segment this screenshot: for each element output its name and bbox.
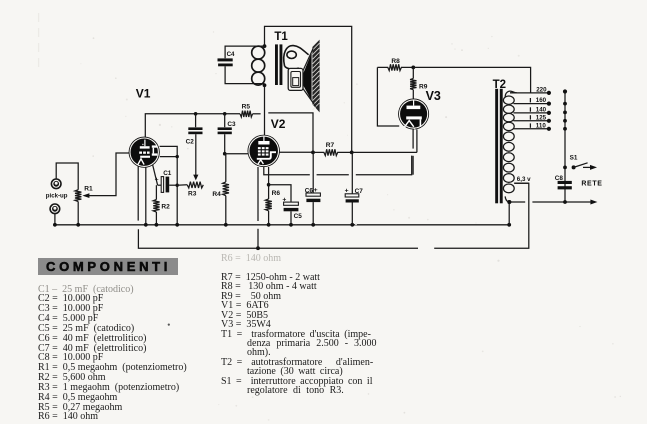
node raw B+ [350, 151, 354, 155]
wire V3 pins to B+ node and heater link [413, 129, 417, 174]
node bus diode line [175, 223, 179, 227]
node bus C5 [289, 223, 293, 227]
pick-up jack top [51, 179, 61, 189]
transformer T1 secondary winding [284, 46, 309, 70]
node R6 top [267, 183, 271, 187]
wire pick-up bottom to ground bus [54, 213, 56, 224]
capacitor C6 electrolytic [306, 152, 320, 224]
wire raw B+ to V3 cathode [352, 151, 417, 153]
resistor R3 potentiometer [177, 182, 203, 188]
svg-text:R6: R6 [272, 190, 281, 197]
svg-text:C6: C6 [305, 188, 314, 195]
wire V1 heater pin to filament bus [138, 166, 529, 248]
node bus right end [507, 223, 511, 227]
svg-text:V2: V2 [271, 117, 286, 131]
resistor R4 [223, 154, 229, 225]
node diode line junctions [176, 155, 179, 158]
capacitor C2 [188, 114, 202, 181]
ink dot artifact [168, 324, 170, 326]
node C3 top [223, 112, 227, 116]
wire mains selector column [564, 92, 566, 202]
node bus pick-up [53, 223, 57, 227]
node T2 tap terminals [547, 91, 551, 131]
components list right column [221, 254, 421, 396]
svg-text:R5: R5 [242, 104, 251, 111]
capacitor C1 [158, 177, 178, 193]
capacitor C5 electrolytic [269, 185, 299, 225]
svg-text:R1: R1 [84, 186, 93, 193]
speaker [288, 40, 319, 113]
svg-text:R8: R8 [391, 58, 400, 65]
wire V1 pin to ground bus [145, 167, 147, 225]
svg-text:C4: C4 [227, 51, 235, 58]
wire V1 diode plates to ground line [160, 146, 178, 224]
resistor R1 potentiometer [75, 190, 81, 225]
wire V2 screen to filtered B+ node [280, 151, 313, 153]
svg-text:R9: R9 [419, 84, 428, 91]
T2 6.3V tap wire [514, 182, 529, 184]
node bus R1 [76, 223, 80, 227]
node R8/R9 junction [411, 66, 415, 70]
wire T2 voltage taps [510, 93, 549, 129]
svg-text:C2: C2 [186, 138, 195, 145]
wire C3 to V2 grid [225, 153, 248, 155]
svg-text:140: 140 [536, 107, 547, 114]
transformer T1 primary coil [252, 46, 265, 85]
node T1 primary top [263, 44, 267, 48]
wire V2 heater link to V3 [264, 156, 412, 175]
svg-text:110: 110 [536, 123, 547, 130]
node bus R2 [155, 223, 159, 227]
wire rectifier junction to T2 tap 220 [413, 67, 530, 93]
node bus C7 [350, 223, 354, 227]
capacitor C3 [218, 114, 232, 154]
node V2 grid / R4 top [223, 152, 227, 156]
node T2 bottom [507, 200, 511, 204]
svg-text:V1: V1 [136, 87, 151, 101]
svg-text:R3: R3 [188, 191, 197, 198]
node bus V1 pin [144, 223, 148, 227]
resistor R6 [265, 199, 271, 225]
wire mains bottom lead with arrow [507, 200, 597, 225]
resistor R8 [377, 64, 413, 70]
components list left column [38, 285, 223, 423]
svg-text:RETE: RETE [581, 180, 602, 187]
svg-text:+: + [345, 187, 349, 194]
wire pick-up to R1 top [56, 163, 78, 190]
svg-text:T1: T1 [274, 31, 288, 43]
wire V1 plate rail y=113.8 [145, 114, 260, 137]
svg-text:V3: V3 [426, 89, 441, 103]
svg-text:T2: T2 [493, 79, 506, 91]
svg-text:S1: S1 [570, 154, 578, 161]
node bus R4 [224, 223, 228, 227]
wire T1 primary bottom to V2 plate [264, 85, 266, 135]
svg-text:160: 160 [536, 97, 547, 104]
svg-text:6,3 v: 6,3 v [517, 176, 531, 183]
svg-text:C7: C7 [355, 188, 364, 195]
tube V1 6AT6 [129, 137, 160, 168]
pick-up jack bottom [50, 204, 60, 214]
components heading [38, 258, 178, 276]
wire R1 wiper arrow to V1 grid [82, 153, 129, 198]
ground bus main [55, 224, 509, 226]
tube V3 35W4 [398, 99, 429, 130]
capacitor C8 [558, 181, 572, 190]
switch S1 [563, 163, 597, 170]
svg-text:R7: R7 [326, 142, 335, 149]
node filtered B+ [311, 151, 315, 155]
svg-text:C1: C1 [163, 170, 172, 177]
faint scan mark top-left [38, 13, 40, 70]
node C2 top [194, 112, 198, 116]
capacitor C4 [218, 46, 265, 84]
wire V2 heater pin to filament bus [257, 167, 259, 248]
T2 tap tick marks [529, 98, 531, 128]
node T1 primary bottom [263, 83, 267, 87]
wire R8 left to V3 plate [377, 67, 399, 126]
svg-text:R2: R2 [161, 204, 170, 211]
svg-text:pick-up: pick-up [46, 193, 68, 200]
svg-text:220: 220 [536, 87, 547, 94]
wire V2 cathode pin to R6 [268, 167, 270, 199]
node filament bus V2 [256, 246, 260, 250]
svg-text:C5: C5 [294, 213, 303, 220]
transformer T2 winding [503, 91, 517, 202]
resistor R7 [313, 149, 352, 155]
svg-text:+: + [314, 187, 318, 194]
svg-text:+: + [155, 176, 159, 183]
transformer T1 core [275, 44, 282, 85]
wire plate rail jump over V2 plate lead to filtered B+ [268, 113, 313, 152]
svg-text:125: 125 [536, 115, 547, 122]
paper speckle noise [80, 31, 621, 421]
svg-text:C8: C8 [555, 175, 564, 182]
capacitor C7 electrolytic [345, 152, 359, 224]
svg-text:+: + [282, 196, 286, 203]
svg-text:R4: R4 [212, 191, 221, 198]
resistor R5 [240, 111, 253, 117]
wire V1 cathode diagonal to C1 junction [153, 165, 158, 186]
wire top B+ rail from T1 primary to rectifier node [265, 26, 352, 152]
node bus R6 [267, 223, 271, 227]
svg-text:C3: C3 [227, 121, 236, 128]
node bus C6 [311, 223, 315, 227]
transformer T2 core [495, 89, 502, 204]
resistor R2 [153, 185, 159, 225]
node mains selector dots [563, 89, 567, 130]
resistor R9 [410, 67, 416, 98]
tube V2 50B5 [248, 135, 280, 167]
